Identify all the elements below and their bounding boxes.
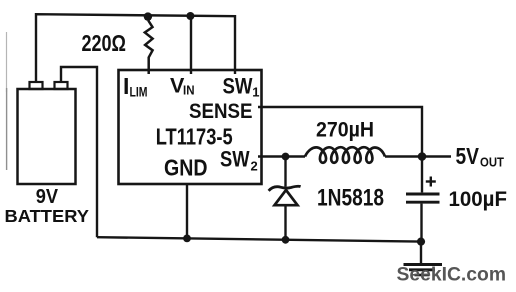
svg-text:SW: SW	[223, 74, 253, 99]
svg-text:9V: 9V	[36, 186, 59, 208]
svg-text:GND: GND	[164, 155, 208, 181]
svg-text:5V: 5V	[456, 143, 480, 169]
svg-text:SW: SW	[220, 147, 250, 172]
svg-text:2: 2	[251, 159, 258, 174]
svg-text:220Ω: 220Ω	[82, 30, 127, 56]
svg-text:1: 1	[252, 85, 259, 100]
svg-text:SENSE: SENSE	[189, 99, 253, 123]
svg-text:100µF: 100µF	[449, 187, 508, 211]
svg-text:OUT: OUT	[480, 155, 504, 170]
svg-text:SeekIC.com: SeekIC.com	[397, 264, 507, 286]
svg-text:IN: IN	[183, 83, 195, 98]
svg-text:I: I	[123, 73, 129, 99]
svg-text:LIM: LIM	[130, 85, 148, 100]
svg-text:BATTERY: BATTERY	[5, 206, 90, 226]
svg-text:1N5818: 1N5818	[317, 185, 384, 212]
svg-text:270µH: 270µH	[316, 118, 374, 142]
